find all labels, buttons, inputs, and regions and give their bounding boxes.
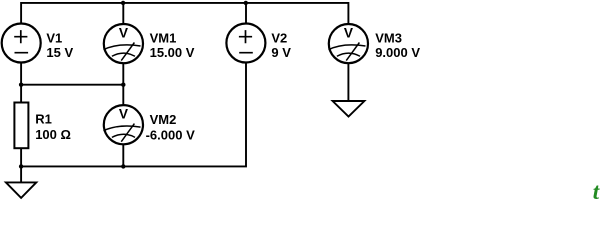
junction dot middle right bbox=[121, 83, 125, 87]
svg-text:V: V bbox=[119, 25, 129, 40]
svg-text:9 V: 9 V bbox=[271, 45, 291, 60]
wire VM3 bottom to ground bbox=[347, 63, 349, 101]
junction dot top VM1 bbox=[121, 1, 125, 5]
ground VM3 bbox=[333, 101, 365, 117]
junction dot middle left bbox=[19, 83, 23, 87]
svg-text:VM1: VM1 bbox=[150, 30, 177, 45]
wire V2 top lead bbox=[245, 3, 247, 24]
svg-text:VM3: VM3 bbox=[375, 30, 402, 45]
junction dot bottom VM2 bbox=[121, 164, 125, 168]
voltmeter VM2 bbox=[104, 105, 144, 144]
wire top bus bbox=[21, 3, 348, 24]
voltage source V1 bbox=[2, 24, 41, 63]
voltmeter VM1 bbox=[104, 24, 144, 63]
svg-text:15 V: 15 V bbox=[46, 45, 73, 60]
wire V2 bottom and bottom bus bbox=[21, 63, 246, 167]
svg-text:R1: R1 bbox=[35, 112, 52, 127]
svg-text:VM2: VM2 bbox=[150, 112, 177, 127]
voltmeter VM3 bbox=[329, 24, 369, 63]
svg-text:V1: V1 bbox=[46, 30, 62, 45]
wire VM1 bottom to VM2 top bbox=[122, 63, 124, 104]
voltage source V2 bbox=[226, 24, 265, 63]
junction dot top V2 bbox=[244, 1, 248, 5]
ground left bbox=[6, 182, 36, 198]
svg-text:-6.000 V: -6.000 V bbox=[146, 127, 195, 142]
svg-text:15.00 V: 15.00 V bbox=[150, 45, 195, 60]
resistor R1 bbox=[14, 103, 28, 149]
wire R1 bottom to ground bbox=[20, 149, 22, 183]
wire VM2 bottom lead bbox=[122, 145, 124, 167]
wire V1 bottom to R1 top bbox=[20, 63, 22, 102]
junction dot bottom left bbox=[19, 164, 23, 168]
svg-text:t: t bbox=[593, 179, 600, 200]
wire middle bus node bbox=[21, 84, 123, 86]
svg-text:V2: V2 bbox=[271, 30, 287, 45]
svg-text:V: V bbox=[119, 107, 129, 122]
svg-text:V: V bbox=[344, 25, 354, 40]
svg-text:100 Ω: 100 Ω bbox=[35, 127, 71, 142]
svg-text:9.000 V: 9.000 V bbox=[375, 45, 420, 60]
wire VM1 top lead bbox=[122, 3, 124, 24]
